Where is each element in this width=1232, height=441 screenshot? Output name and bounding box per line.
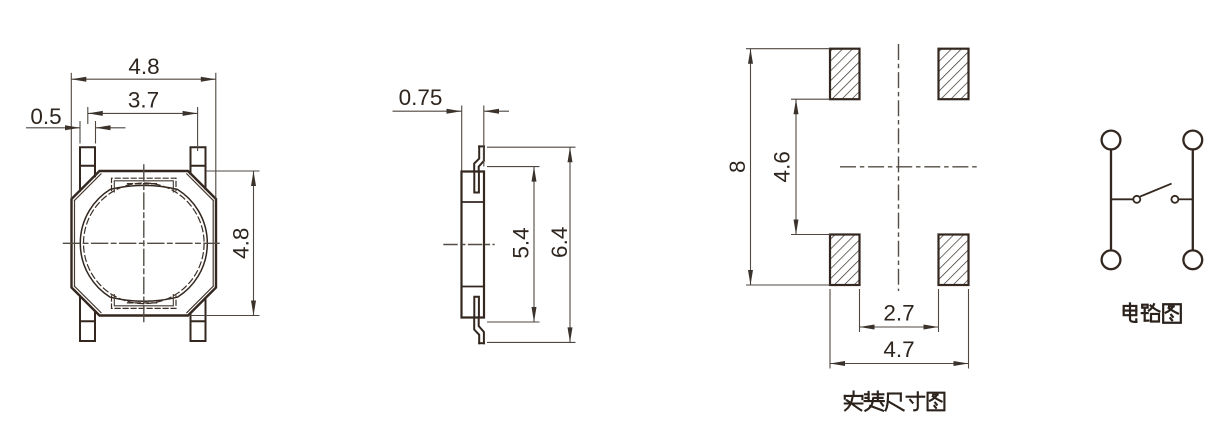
terminal 1 — [1102, 131, 1121, 150]
side centerline — [444, 244, 494, 246]
wire switch right stub — [1178, 198, 1192, 200]
wire left — [1110, 149, 1112, 250]
pad top-left — [80, 147, 95, 191]
bottom tab hidden outline — [112, 296, 177, 308]
footprint centerline horizontal — [840, 166, 978, 168]
dimension 4.8 right vertical — [189, 171, 260, 316]
路 — [1142, 304, 1160, 321]
dimension 0.75 — [393, 106, 510, 171]
svg-text:4.7: 4.7 — [883, 337, 914, 362]
svg-text:6.4: 6.4 — [547, 227, 572, 258]
top tab hidden outline — [112, 178, 177, 190]
body seam lower — [462, 286, 485, 288]
wire right — [1192, 149, 1194, 250]
svg-text:4.6: 4.6 — [770, 151, 795, 182]
stem tab hidden top segment — [128, 183, 159, 185]
body seam upper — [462, 201, 485, 203]
pad bottom-right — [191, 298, 206, 341]
wire switch left stub — [1111, 198, 1133, 200]
footprint centerline vertical — [898, 44, 900, 291]
body octagon outline — [72, 171, 217, 316]
svg-text:5.4: 5.4 — [509, 227, 534, 258]
电 — [1124, 303, 1137, 321]
pad footprint bottom-right — [939, 235, 969, 286]
stem tab hidden bottom segment — [128, 302, 159, 304]
top tab inner line — [114, 181, 173, 192]
pad top-right — [191, 147, 206, 189]
top lead inner portion — [474, 172, 479, 193]
dimension 4.7 — [830, 289, 969, 369]
button circle — [80, 185, 207, 301]
svg-text:4.8: 4.8 — [229, 228, 254, 259]
dimension 8 — [746, 49, 830, 285]
hidden dashed circle — [84, 183, 205, 304]
尺 — [886, 394, 904, 411]
dimension 2.7 — [860, 289, 939, 332]
安 — [845, 392, 863, 411]
图 — [928, 393, 945, 411]
pad footprint top-left — [830, 49, 860, 99]
寸 — [907, 392, 925, 410]
svg-text:8: 8 — [725, 161, 750, 174]
图 — [1163, 304, 1181, 322]
label 安装尺寸图 — [845, 392, 945, 411]
dimension 6.4 — [487, 147, 576, 342]
terminal 2 — [1183, 131, 1202, 150]
terminal 4 — [1183, 250, 1202, 269]
top lead — [474, 146, 484, 171]
body inner edge lines — [75, 174, 214, 313]
terminal 3 — [1102, 250, 1121, 269]
bottom lead — [474, 318, 484, 344]
dimension 4.6 — [791, 99, 830, 234]
switch lever — [1140, 184, 1172, 197]
dimension 0.5 — [26, 121, 126, 144]
centerline horizontal — [64, 242, 220, 244]
switch contact right — [1171, 196, 1178, 203]
bottom lead inner portion — [474, 297, 479, 318]
svg-text:3.7: 3.7 — [128, 88, 159, 113]
svg-text:0.75: 0.75 — [399, 85, 443, 110]
dimension 3.7 — [88, 107, 198, 151]
装 — [865, 392, 884, 411]
switch contact left — [1133, 196, 1140, 203]
svg-text:4.8: 4.8 — [128, 54, 159, 79]
label 电路图 — [1124, 303, 1181, 322]
dimension 4.8 top — [71, 73, 216, 199]
side body outline — [462, 172, 485, 318]
pad bottom-left — [80, 296, 95, 341]
svg-text:2.7: 2.7 — [883, 301, 914, 326]
pad footprint bottom-left — [830, 235, 860, 286]
svg-text:0.5: 0.5 — [30, 104, 61, 129]
centerline vertical — [143, 165, 145, 325]
dimension 5.4 — [487, 167, 540, 322]
pad footprint top-right — [939, 49, 969, 99]
bottom tab inner line — [114, 295, 173, 306]
